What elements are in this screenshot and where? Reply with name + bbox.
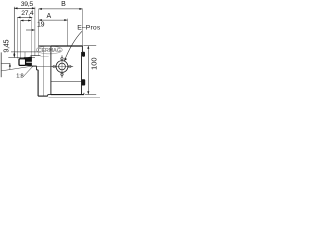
boss 1 right side	[82, 52, 85, 57]
E-Pro leader	[64, 31, 82, 61]
taper construction line (a)	[1, 66, 32, 71]
dimension 100	[83, 46, 98, 95]
faint upper left edge	[37, 46, 39, 56]
extension lines vertical	[14, 7, 82, 59]
internal vertical	[42, 46, 44, 96]
svg-text:100: 100	[89, 57, 98, 70]
dimension 9,45 (rotated)	[2, 40, 39, 58]
svg-text:39,5: 39,5	[21, 1, 34, 8]
side view body	[31, 46, 51, 96]
dimension A	[39, 13, 68, 21]
key strip on shaft	[24, 57, 31, 58]
dimension 27,4	[18, 10, 34, 18]
svg-text:9,45: 9,45	[2, 40, 11, 53]
top edge side view	[38, 45, 50, 47]
shaft nut	[19, 59, 26, 66]
ledge under shaft	[32, 65, 37, 67]
key vertical stub	[24, 52, 26, 57]
svg-text:1:8: 1:8	[16, 74, 23, 80]
dimension 39,5	[14, 1, 35, 9]
svg-text:27,4: 27,4	[21, 10, 34, 17]
svg-text:CERMAG: CERMAG	[38, 48, 61, 54]
svg-text:19: 19	[37, 22, 45, 29]
dimension B	[39, 1, 83, 10]
dimension 19	[21, 20, 45, 29]
small opposed arrows at y=30	[26, 29, 35, 31]
1:8 label and leader (b)	[16, 66, 33, 79]
svg-text:E–Pros: E–Pros	[77, 25, 100, 32]
bolt pattern	[53, 57, 71, 75]
bottom edge	[38, 95, 48, 97]
boss 2 right side	[82, 79, 86, 85]
left body edge	[37, 70, 39, 96]
small lower-left dimension w/ vertical arrow	[1, 63, 11, 70]
FRONT VIEW flange	[51, 46, 84, 95]
watermark CERMAG logo	[36, 46, 62, 54]
shoulder top line	[31, 55, 41, 57]
svg-text:B: B	[61, 1, 66, 8]
shaft taper block	[25, 56, 32, 66]
centerlines	[37, 55, 73, 78]
left frame line	[0, 52, 2, 77]
svg-text:A: A	[46, 13, 51, 20]
bottom grey line	[49, 96, 101, 98]
